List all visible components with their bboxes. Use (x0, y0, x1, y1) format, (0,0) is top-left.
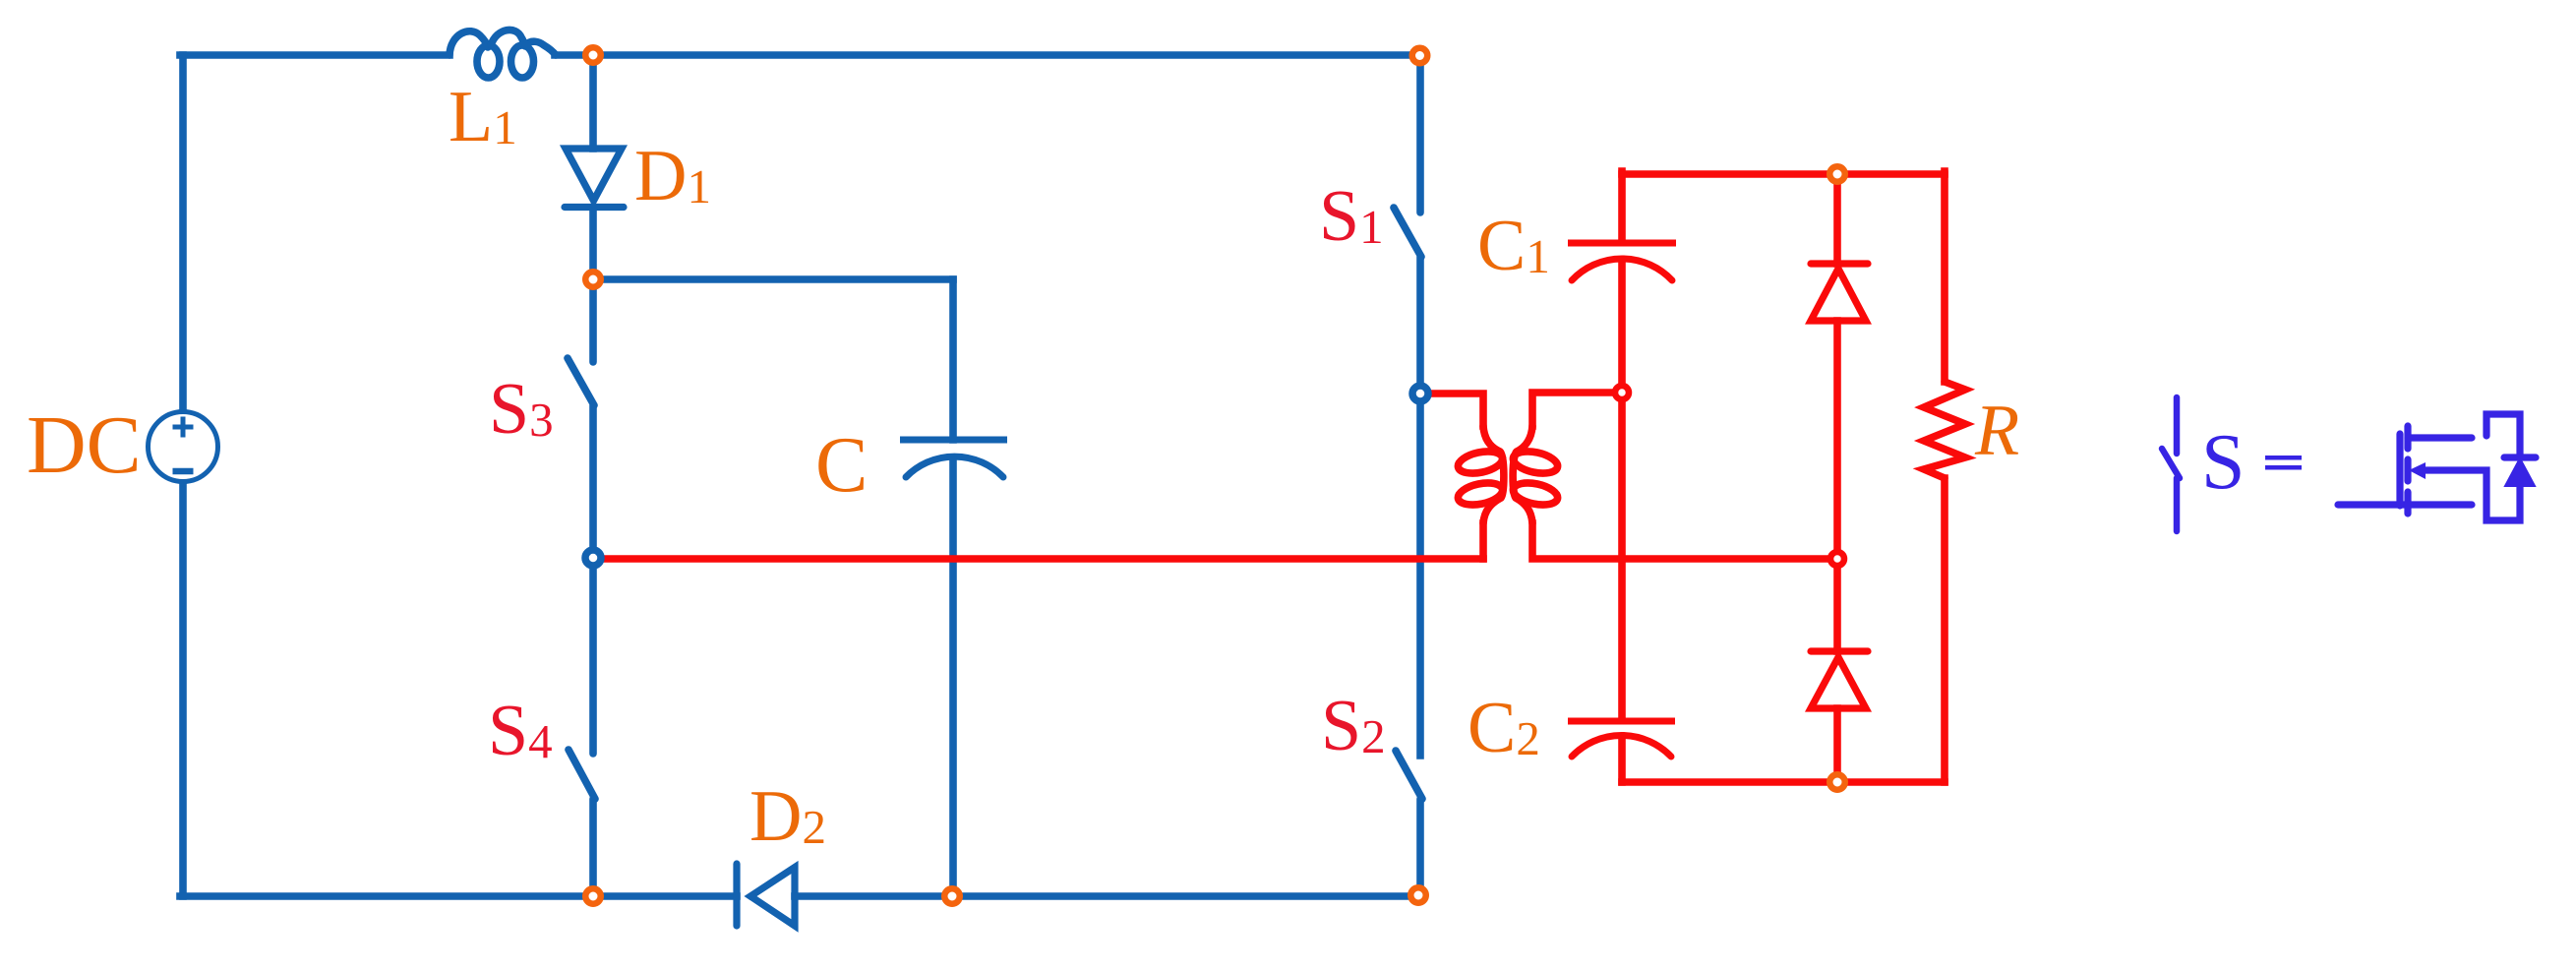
wire C1 bottom to C2 top (left vertical) (1618, 262, 1626, 718)
wire branch to capacitor C (horizontal) (593, 275, 953, 283)
node S1/S2 midpoint (blue, primary link) (1412, 386, 1428, 401)
node rectifier top rail (1829, 166, 1845, 182)
inductor L1 (449, 30, 556, 78)
svg-text:C1: C1 (1477, 206, 1550, 286)
wire transformer primary bottom stub (1479, 523, 1487, 559)
wire capacitor C top lead (949, 279, 957, 440)
wire C2 bottom lead (1618, 740, 1626, 782)
switch S1 (1394, 55, 1421, 394)
wire D4 anode to bottom rail (1833, 708, 1841, 782)
wire secondary bottom to diode mid node (1532, 523, 1837, 559)
node top-left of bridge (L1/D1 junction) (585, 47, 601, 63)
wire D3 anode to mid node (1833, 321, 1841, 559)
svg-text:S4: S4 (488, 691, 553, 771)
wire mid node to diode D4 (1833, 559, 1841, 651)
wire secondary top to C1/C2 node (1532, 393, 1622, 426)
capacitor C1 (1568, 243, 1676, 280)
wire bottom rail left (180, 892, 737, 900)
node bottom-right corner (bottom rail / S2) (1410, 887, 1426, 903)
node diode midpoint (red) (1830, 552, 1844, 566)
wire resistor bottom lead (1941, 478, 1948, 782)
diode D4 (bottom rectifier diode) (1811, 651, 1868, 708)
diode D1 (565, 149, 624, 208)
svg-text:D1: D1 (634, 136, 711, 216)
wire C1 top lead (1618, 171, 1626, 240)
wire left vertical top (DC+ to top rail) (179, 55, 187, 409)
wire S1-S2 mid (1416, 394, 1424, 756)
legend equals sign (2265, 456, 2302, 470)
legend MOSFET arrow head (2409, 462, 2426, 479)
wire top rail right (inductor to S1 corner) (555, 51, 1420, 59)
svg-text:D2: D2 (749, 776, 826, 857)
wire top rail to diode D3 (1833, 174, 1841, 264)
legend MOSFET body diode triangle (2505, 458, 2535, 486)
transformer T1 primary winding (1456, 426, 1504, 523)
svg-text:DC: DC (27, 399, 142, 491)
switch S4 (569, 558, 595, 896)
capacitor C (900, 440, 1007, 477)
node D1 cathode / S3 / C branch (585, 272, 601, 287)
diode D2 (737, 864, 795, 926)
node secondary top / C1-C2 midpoint (red) (1615, 386, 1629, 399)
wire resistor top lead (1941, 171, 1948, 382)
node rectifier bottom rail (1829, 774, 1845, 790)
red rectifier: top rail (1622, 170, 1945, 178)
node S3/S4 midpoint (blue, red link) (585, 550, 601, 566)
capacitor C2 (1568, 721, 1675, 757)
node top-right corner (top rail / S1) (1412, 48, 1428, 64)
svg-text:S: S (2201, 419, 2246, 506)
wire D1 cathode to node (589, 211, 597, 279)
wire left vertical bottom (DC- to bottom rail) (179, 484, 187, 896)
switch S3 (568, 279, 594, 558)
legend switch S symbol (2162, 397, 2180, 531)
legend MOSFET Q with body diode (2338, 414, 2536, 520)
transformer T1 secondary winding (1511, 426, 1559, 523)
node C bottom / bottom rail (944, 888, 960, 904)
red link wire from S3/S4 node to transformer primary bottom (602, 555, 1483, 563)
svg-text:C: C (815, 422, 868, 509)
svg-text:S1: S1 (1319, 176, 1384, 257)
wire bottom rail right (795, 892, 1420, 900)
diode D3 (top rectifier diode) (1811, 264, 1868, 321)
resistor R (1924, 382, 1965, 478)
svg-text:S2: S2 (1321, 686, 1386, 766)
DC source V1 (149, 412, 218, 482)
svg-text:R: R (1974, 391, 2019, 471)
svg-text:C2: C2 (1468, 688, 1540, 768)
wire top rail left (to inductor) (180, 51, 449, 59)
switch S2 (1396, 751, 1422, 896)
svg-text:S3: S3 (489, 369, 554, 450)
wire capacitor C bottom lead (949, 460, 957, 896)
red wire from S1/S2 node to transformer primary top (1428, 394, 1483, 426)
wire D1 anode (589, 55, 597, 149)
red rectifier: bottom rail (1622, 778, 1945, 786)
node S4 bottom / bottom rail (585, 888, 601, 904)
svg-text:L1: L1 (449, 77, 517, 157)
